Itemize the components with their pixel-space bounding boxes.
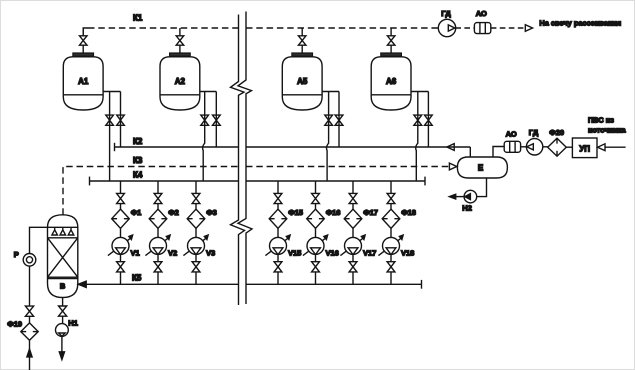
filter F20 (548, 138, 567, 156)
svg-text:А6: А6 (386, 77, 397, 86)
svg-text:ПВС из: ПВС из (588, 115, 614, 124)
valve bottom of branch V17 (349, 262, 357, 272)
svg-text:Ф18: Ф18 (401, 208, 416, 217)
blower V17 (345, 237, 362, 254)
wire B bottom to H1 (62, 298, 64, 307)
svg-text:Н2: Н2 (462, 204, 472, 213)
wire PVS inlet with arrow into UP (605, 146, 626, 148)
svg-text:Ф17: Ф17 (363, 208, 378, 217)
valve on А5 right drop (335, 115, 343, 125)
svg-text:Р: Р (14, 250, 19, 259)
wire F20 to UP (566, 146, 572, 148)
svg-text:V18: V18 (401, 249, 414, 258)
valve top of branch Ф15 (274, 193, 282, 203)
vessel А5 (282, 57, 322, 110)
svg-text:Е: Е (478, 163, 484, 172)
filter Ф17 (344, 209, 362, 228)
vessel B packing section with X (48, 238, 78, 277)
wire F19 inlet from bottom with up arrow (29, 340, 31, 370)
wire branch Ф2/V2 from K4 (157, 181, 159, 193)
svg-text:А1: А1 (78, 77, 89, 86)
valve top of branch Ф3 (192, 193, 200, 203)
svg-text:ГД: ГД (441, 9, 451, 18)
svg-text:К1: К1 (133, 14, 143, 23)
vessel B spray nozzles (52, 227, 58, 235)
vessel А1 top flange (73, 53, 94, 56)
svg-text:ГД: ГД (529, 128, 539, 137)
wire branch Ф17/V17 from K4 (352, 181, 354, 193)
svg-text:Н1: Н1 (68, 318, 78, 327)
valve on А6 left drop (414, 115, 422, 125)
unit UP (572, 138, 597, 158)
svg-text:А2: А2 (175, 77, 186, 86)
valve on А1 right drop (117, 115, 125, 125)
filter Ф16 (307, 209, 325, 228)
svg-text:А5: А5 (297, 77, 308, 86)
gauge P (double circle) (23, 253, 36, 266)
wire А2 right drop to K2 (215, 92, 217, 148)
svg-text:К4: К4 (133, 170, 143, 179)
vessel B scrubber column (48, 215, 78, 298)
wire E bottom to H2 (477, 178, 487, 197)
vessel А5 top flange (292, 53, 313, 56)
valve bottom of branch V3 (192, 262, 200, 272)
valve top of branch Ф1 (117, 193, 125, 203)
gas blower GD (flare) (438, 19, 455, 36)
svg-text:К5: К5 (132, 273, 142, 282)
valve bottom of branch V16 (312, 262, 320, 272)
wire А2 vent to K1 (179, 45, 181, 53)
blower V16 (307, 237, 324, 254)
wire А5 left drop to K4 (327, 92, 329, 182)
node K5 arrow into B (78, 281, 86, 287)
valve above H1 (59, 306, 67, 316)
blower V18 (383, 237, 400, 254)
wire А5 outlet header (322, 91, 339, 93)
flame arrester AO (flare) (474, 23, 490, 34)
valve on А5 left drop (325, 115, 333, 125)
valve on А6 right drop (425, 115, 433, 125)
blower V15 (270, 237, 287, 254)
blower V3 (188, 237, 205, 254)
svg-text:V15: V15 (288, 249, 301, 258)
vessel E (457, 157, 507, 178)
wire А1 left drop to K4 (109, 92, 111, 182)
wire K3 arrow into E (449, 163, 456, 170)
svg-text:Ф2: Ф2 (168, 208, 179, 217)
svg-text:АО: АО (506, 130, 517, 139)
valve bottom of branch V2 (154, 262, 162, 272)
wire А6 left drop to K4 (416, 92, 418, 182)
valve top of branch Ф2 (154, 193, 162, 203)
valve bottom of branch V18 (387, 262, 395, 272)
wire А1 right drop to K2 (120, 92, 122, 148)
svg-text:V1: V1 (131, 249, 140, 258)
svg-text:К2: К2 (133, 137, 143, 146)
wire K3 dashed manifold (63, 167, 239, 215)
valve on А2 vent line (176, 36, 184, 45)
filter F19 (21, 323, 38, 340)
pump H1 (56, 324, 69, 337)
valve on F19 line (25, 306, 33, 316)
svg-text:V16: V16 (326, 249, 339, 258)
svg-text:Ф3: Ф3 (206, 208, 217, 217)
valve on А1 vent line (80, 36, 88, 45)
wire P to valve (29, 266, 31, 306)
svg-text:V17: V17 (363, 249, 376, 258)
blower V1 (112, 237, 129, 254)
valve bottom of branch V15 (274, 262, 282, 272)
wire А6 vent to K1 (390, 45, 392, 53)
wire H1 discharge down arrow (61, 336, 63, 352)
flame arrester AO (right) (504, 141, 520, 152)
filter Ф15 (269, 209, 287, 228)
wire А2 outlet header (200, 91, 217, 93)
valve on А1 left drop (106, 115, 114, 125)
wire А5 vent to K1 (301, 45, 303, 53)
valve on А5 vent line (298, 36, 306, 45)
svg-text:На свечу рассеивания: На свечу рассеивания (539, 19, 621, 28)
wire AO to E top (493, 147, 504, 158)
wire flare arrow (525, 25, 532, 32)
wire branch Ф15/V15 from K4 (277, 181, 279, 193)
wire line-break mark (double lines with zigzags) (231, 15, 245, 306)
vessel А6 (371, 57, 411, 110)
wire K1 dashed header to flare (83, 28, 88, 36)
valve top of branch Ф17 (349, 193, 357, 203)
svg-text:V3: V3 (206, 249, 215, 258)
svg-text:К3: К3 (133, 156, 143, 165)
valve top of branch Ф18 (387, 193, 395, 203)
wire branch Ф1/V1 from K4 (120, 181, 122, 193)
wire А5 right drop to K2 (338, 92, 340, 148)
valve on А2 left drop (201, 115, 209, 125)
valve bottom of branch V1 (117, 262, 125, 272)
blower V2 (150, 237, 167, 254)
wire B left outlet down (30, 227, 48, 253)
svg-text:источника: источника (588, 125, 627, 134)
vessel А2 top flange (170, 53, 191, 56)
filter Ф2 (149, 209, 167, 228)
wire А1 vent to K1 (82, 45, 84, 53)
wire branch Ф3/V3 from K4 (195, 181, 197, 193)
vessel А1 (63, 57, 103, 110)
gas blower GD (right) (526, 139, 542, 155)
wire H2 discharge left arrow (455, 196, 464, 198)
vessel А6 top flange (381, 53, 402, 56)
svg-text:Ф20: Ф20 (549, 128, 564, 137)
valve top of branch Ф16 (312, 193, 320, 203)
wire K5 manifold (86, 283, 239, 285)
svg-text:Ф1: Ф1 (131, 208, 142, 217)
filter Ф3 (187, 209, 205, 228)
svg-text:АО: АО (476, 9, 487, 18)
svg-text:V2: V2 (168, 249, 177, 258)
filter Ф18 (382, 209, 400, 228)
svg-text:В: В (60, 282, 66, 291)
pump H2 (464, 190, 477, 203)
valve on А6 vent line (387, 36, 395, 45)
wire А2 left drop to K4 (203, 92, 205, 182)
wire K4 manifold (90, 180, 239, 182)
filter Ф1 (112, 209, 130, 228)
wire branch Ф16/V16 from K4 (315, 181, 317, 193)
svg-text:Ф19: Ф19 (7, 319, 22, 328)
svg-text:УП: УП (579, 144, 590, 153)
wire GD to F20 (543, 146, 548, 148)
wire А1 outlet header (103, 91, 120, 93)
wire branch Ф18/V18 from K4 (390, 181, 392, 193)
vessel А2 (160, 57, 200, 110)
svg-text:Ф15: Ф15 (288, 208, 303, 217)
svg-text:Ф16: Ф16 (326, 208, 341, 217)
wire K2 manifold (115, 146, 239, 148)
wire E top to K2 (469, 147, 471, 157)
wire А6 outlet header (411, 91, 428, 93)
wire AO to GD (521, 146, 527, 148)
wire А6 right drop to K2 (427, 92, 429, 148)
valve on А2 right drop (213, 115, 221, 125)
